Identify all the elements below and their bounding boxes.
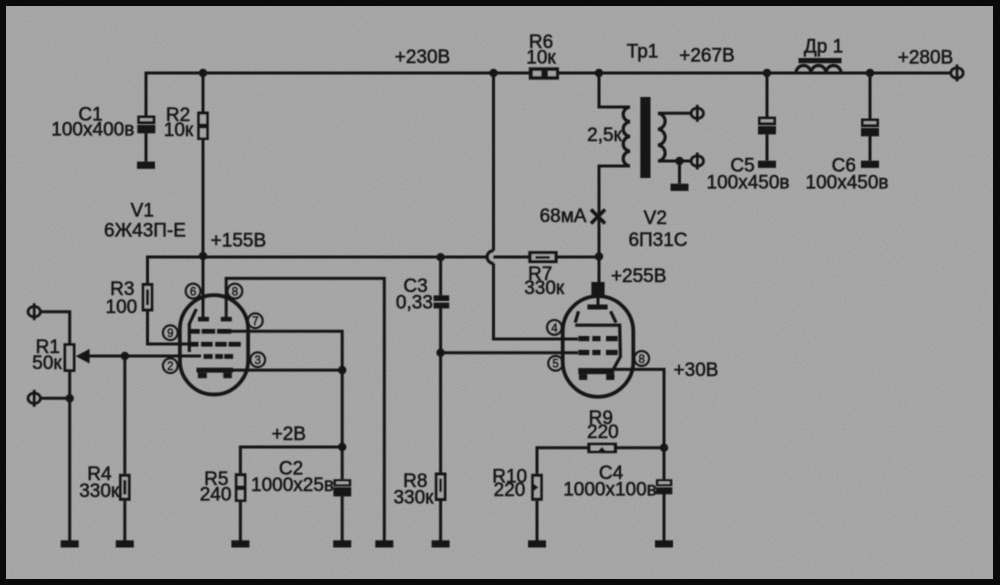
transformer Tp1 core xyxy=(640,97,650,178)
ground symbol below C1 xyxy=(137,162,155,169)
resistor R3 xyxy=(142,283,154,312)
capacitor C2 (electrolytic) xyxy=(333,479,351,496)
junction dot +2B node xyxy=(338,443,346,451)
X marker measuring point 68mA xyxy=(591,210,605,224)
svg-text:330к: 330к xyxy=(393,488,434,509)
svg-text:6Ж43П-Е: 6Ж43П-Е xyxy=(104,221,186,242)
svg-text:10к: 10к xyxy=(526,48,556,69)
wire R10 branch down xyxy=(536,446,539,474)
terminal secondary top xyxy=(691,105,703,122)
wire V1 cathode pin 3 exit xyxy=(233,369,342,372)
resistor R2 xyxy=(197,112,209,141)
junction dot rail/transformer xyxy=(595,69,603,77)
pin label 8 (V1) xyxy=(228,284,243,299)
svg-text:V1: V1 xyxy=(131,201,154,222)
svg-text:Тр1: Тр1 xyxy=(627,42,659,63)
svg-text:+230В: +230В xyxy=(395,47,450,68)
junction dot C3 top xyxy=(436,253,444,261)
svg-text:8: 8 xyxy=(638,354,644,366)
pin label 2 xyxy=(163,358,178,373)
tube V2 envelope xyxy=(563,296,634,397)
wire input terminal 1 to R1 top xyxy=(40,312,69,344)
terminal input 1 xyxy=(28,303,40,320)
tube V2 beam plate left xyxy=(575,311,578,322)
wire +2B node horizontal xyxy=(240,446,342,449)
junction dot rail/R2 xyxy=(199,69,207,77)
potentiometer R1 body xyxy=(64,343,76,372)
wire cathode node horizontal through R9 xyxy=(537,446,664,449)
capacitor C6 (electrolytic) xyxy=(861,119,879,137)
terminal input 2 xyxy=(28,390,40,407)
tube V1 anode pin6 T-bar xyxy=(198,317,209,322)
tube V2 grid row pin5 dashes xyxy=(578,350,617,355)
junction dot +155B node xyxy=(199,252,207,260)
wire screen feed down to V2 pin 4 xyxy=(494,263,579,339)
ground symbol below R5 xyxy=(231,540,249,547)
resistor R4 xyxy=(119,474,131,501)
wire R1 wiper to V1 grid pin 2 xyxy=(87,355,202,358)
wire R3 bottom to V1 grid pin 9 xyxy=(148,312,189,345)
pin label 4 xyxy=(547,320,562,335)
choke Dr1 winding xyxy=(796,66,841,74)
ground symbol below C2 xyxy=(333,540,351,547)
wire V1 pin 7 exit to cathode junction xyxy=(231,331,342,447)
ground symbol below secondary xyxy=(671,184,689,191)
wire top supply rail xyxy=(146,72,952,75)
wire rail junction down to transformer primary top xyxy=(599,73,630,107)
svg-text:5: 5 xyxy=(552,359,558,371)
ground symbol below R4 xyxy=(116,540,134,547)
wire C6 to ground xyxy=(869,136,872,161)
svg-text:330к: 330к xyxy=(79,481,120,502)
wire C3 bottom to grid junction xyxy=(439,308,442,352)
ground symbol below R10 xyxy=(528,540,546,547)
svg-text:1000x100в: 1000x100в xyxy=(563,480,657,501)
svg-text:2,5к: 2,5к xyxy=(587,125,622,146)
tube V1 grid row pin9 dashes xyxy=(188,342,241,347)
svg-text:3: 3 xyxy=(254,355,260,367)
wire R1 bottom to ground xyxy=(68,371,71,541)
transformer Tp1 primary winding xyxy=(623,107,630,166)
svg-text:+30В: +30В xyxy=(674,360,719,381)
tube V2 anode plate bar xyxy=(587,305,607,310)
wire C5 to ground xyxy=(766,135,769,161)
tube V1 screen pin8 T-bar xyxy=(221,317,232,322)
tube V2 beam plate right xyxy=(611,311,616,322)
wire R3 branch from +155B node xyxy=(146,256,149,284)
wire C1 branch drop xyxy=(145,72,148,117)
wire V2 cathode pin 8 exit to C4 branch xyxy=(614,369,664,479)
tube V2 grid row pin4 dashes xyxy=(578,336,617,341)
tube V1 cathode feet xyxy=(198,373,207,379)
ground symbol below C4 xyxy=(655,540,673,547)
tube V2 cathode feet xyxy=(579,374,587,380)
svg-text:220: 220 xyxy=(494,480,526,501)
svg-text:+267В: +267В xyxy=(679,46,734,67)
svg-text:6П31С: 6П31С xyxy=(628,230,687,251)
terminal output +280B xyxy=(951,65,963,82)
tube V1 internal diagonal stroke xyxy=(189,309,196,352)
svg-text:10к: 10к xyxy=(164,120,194,141)
wire +155B node horizontal left part xyxy=(148,256,489,259)
wire V1 pin 8 screen to ground drop xyxy=(226,278,384,540)
wire R5 bottom to ground xyxy=(239,502,242,541)
junction dot V2 cathode node xyxy=(660,444,668,452)
tube V2 anode inner stem xyxy=(597,295,600,305)
svg-text:220: 220 xyxy=(587,422,619,443)
wire screen feed drop from rail xyxy=(492,73,495,251)
wire C2 to ground xyxy=(341,496,344,540)
svg-text:7: 7 xyxy=(252,316,258,328)
pin label 5 xyxy=(548,356,563,371)
wire R5 branch down xyxy=(239,446,242,474)
wire transformer secondary bottom to terminal xyxy=(658,160,692,163)
svg-text:+2В: +2В xyxy=(272,424,306,445)
pin label 9 xyxy=(163,325,178,340)
junction dot wiper/R4 xyxy=(121,352,129,360)
resistor R6 xyxy=(529,67,559,79)
tube V1 envelope xyxy=(180,295,248,394)
svg-text:6: 6 xyxy=(190,287,196,299)
wire C3 top branch from +155B wire xyxy=(439,257,442,295)
resistor R8 xyxy=(435,473,447,502)
wire +155B node to R7 and V2 anode line xyxy=(494,256,600,259)
ground symbol below R8 xyxy=(432,540,450,547)
wire R2 branch: rail to V1 anode pin 6 xyxy=(202,73,205,318)
svg-text:8: 8 xyxy=(232,287,238,299)
junction dot rail/C6 xyxy=(866,69,874,77)
resistor R9 xyxy=(587,443,617,454)
pin label 7 xyxy=(248,313,263,328)
pin label 8 (V2) xyxy=(634,351,649,366)
svg-text:240: 240 xyxy=(200,485,232,506)
wire grid junction down to R8 xyxy=(439,353,442,473)
wire hop over vertical at x493.5 xyxy=(487,251,493,264)
ground symbol below R1 xyxy=(61,540,79,547)
tube V1 cathode bar xyxy=(197,368,234,373)
capacitor C1 (electrolytic) xyxy=(137,116,155,134)
junction dot rail/screen drop xyxy=(489,69,497,77)
wire anode line to V2 top cap xyxy=(598,256,601,283)
wire transformer primary bottom to anode line xyxy=(599,166,630,256)
wire R4 branch from wiper wire xyxy=(123,356,126,474)
junction dot V1 cathode / pin7 line xyxy=(338,366,346,374)
junction dot secondary bottom/ground xyxy=(675,157,683,165)
svg-text:Др 1: Др 1 xyxy=(804,37,843,58)
svg-text:100x400в: 100x400в xyxy=(51,119,134,140)
tube V2 cathode bar xyxy=(578,368,614,374)
svg-text:330к: 330к xyxy=(524,278,565,299)
svg-text:+255В: +255В xyxy=(611,266,666,287)
wire input terminal 2 to R1 bottom line xyxy=(40,397,69,400)
resistor R7 xyxy=(528,251,557,263)
tube V2 beam plate bottom and tail to cathode xyxy=(575,325,620,369)
capacitor C3 (film) xyxy=(434,295,450,308)
tube V1 grid row pin7 dashes xyxy=(190,329,231,334)
wire C1 to ground xyxy=(145,133,148,162)
ground symbol below V1 pin8 line xyxy=(375,540,393,547)
terminal secondary bottom xyxy=(691,153,703,170)
junction dot input2/R1 bottom xyxy=(66,394,74,402)
wire secondary bottom to ground xyxy=(678,161,681,184)
ground symbol below C6 xyxy=(861,161,879,168)
wire transformer secondary top to terminal xyxy=(658,112,692,115)
wire C4 to ground xyxy=(663,494,666,541)
wire R4 bottom to ground xyxy=(123,501,126,541)
capacitor C5 (electrolytic) xyxy=(758,117,776,135)
wire C6 branch from rail xyxy=(869,73,872,119)
potentiometer R1 wiper arrow xyxy=(76,349,90,364)
svg-text:100x450в: 100x450в xyxy=(707,173,790,194)
svg-text:100: 100 xyxy=(106,297,138,318)
ground symbol below C5 xyxy=(758,161,776,168)
svg-text:+280В: +280В xyxy=(898,48,953,69)
resistor R5 xyxy=(235,473,247,502)
svg-text:9: 9 xyxy=(167,328,173,340)
svg-text:68мА: 68мА xyxy=(540,206,587,227)
svg-text:50к: 50к xyxy=(32,353,62,374)
wire R10 bottom to ground xyxy=(536,501,539,541)
svg-text:+155В: +155В xyxy=(211,231,266,252)
pin label 6 xyxy=(186,284,201,299)
choke Dr1 core bar xyxy=(799,58,842,63)
svg-text:2: 2 xyxy=(167,361,173,373)
resistor R10 xyxy=(531,474,543,501)
wire C2 branch down xyxy=(341,447,344,479)
svg-text:V2: V2 xyxy=(644,208,667,229)
junction dot R7 right / anode line xyxy=(595,252,603,260)
tube V1 grid row pin2 dashes xyxy=(204,354,233,359)
pin label 3 xyxy=(250,352,265,367)
svg-text:4: 4 xyxy=(551,323,558,335)
wire R8 bottom to ground xyxy=(439,501,442,541)
wire C5 branch from rail xyxy=(766,73,769,117)
svg-text:1000x25в: 1000x25в xyxy=(251,475,334,496)
transformer Tp1 secondary winding xyxy=(658,113,665,161)
svg-text:0,33: 0,33 xyxy=(396,293,433,314)
wire grid junction to V2 grid pin 5 xyxy=(441,351,578,354)
tube V2 anode top cap xyxy=(591,282,604,295)
svg-text:100x450в: 100x450в xyxy=(806,173,889,194)
junction dot C3/R8/V2 grid xyxy=(436,349,444,357)
capacitor C4 (electrolytic) xyxy=(656,479,672,494)
junction dot rail/C5 xyxy=(763,69,771,77)
